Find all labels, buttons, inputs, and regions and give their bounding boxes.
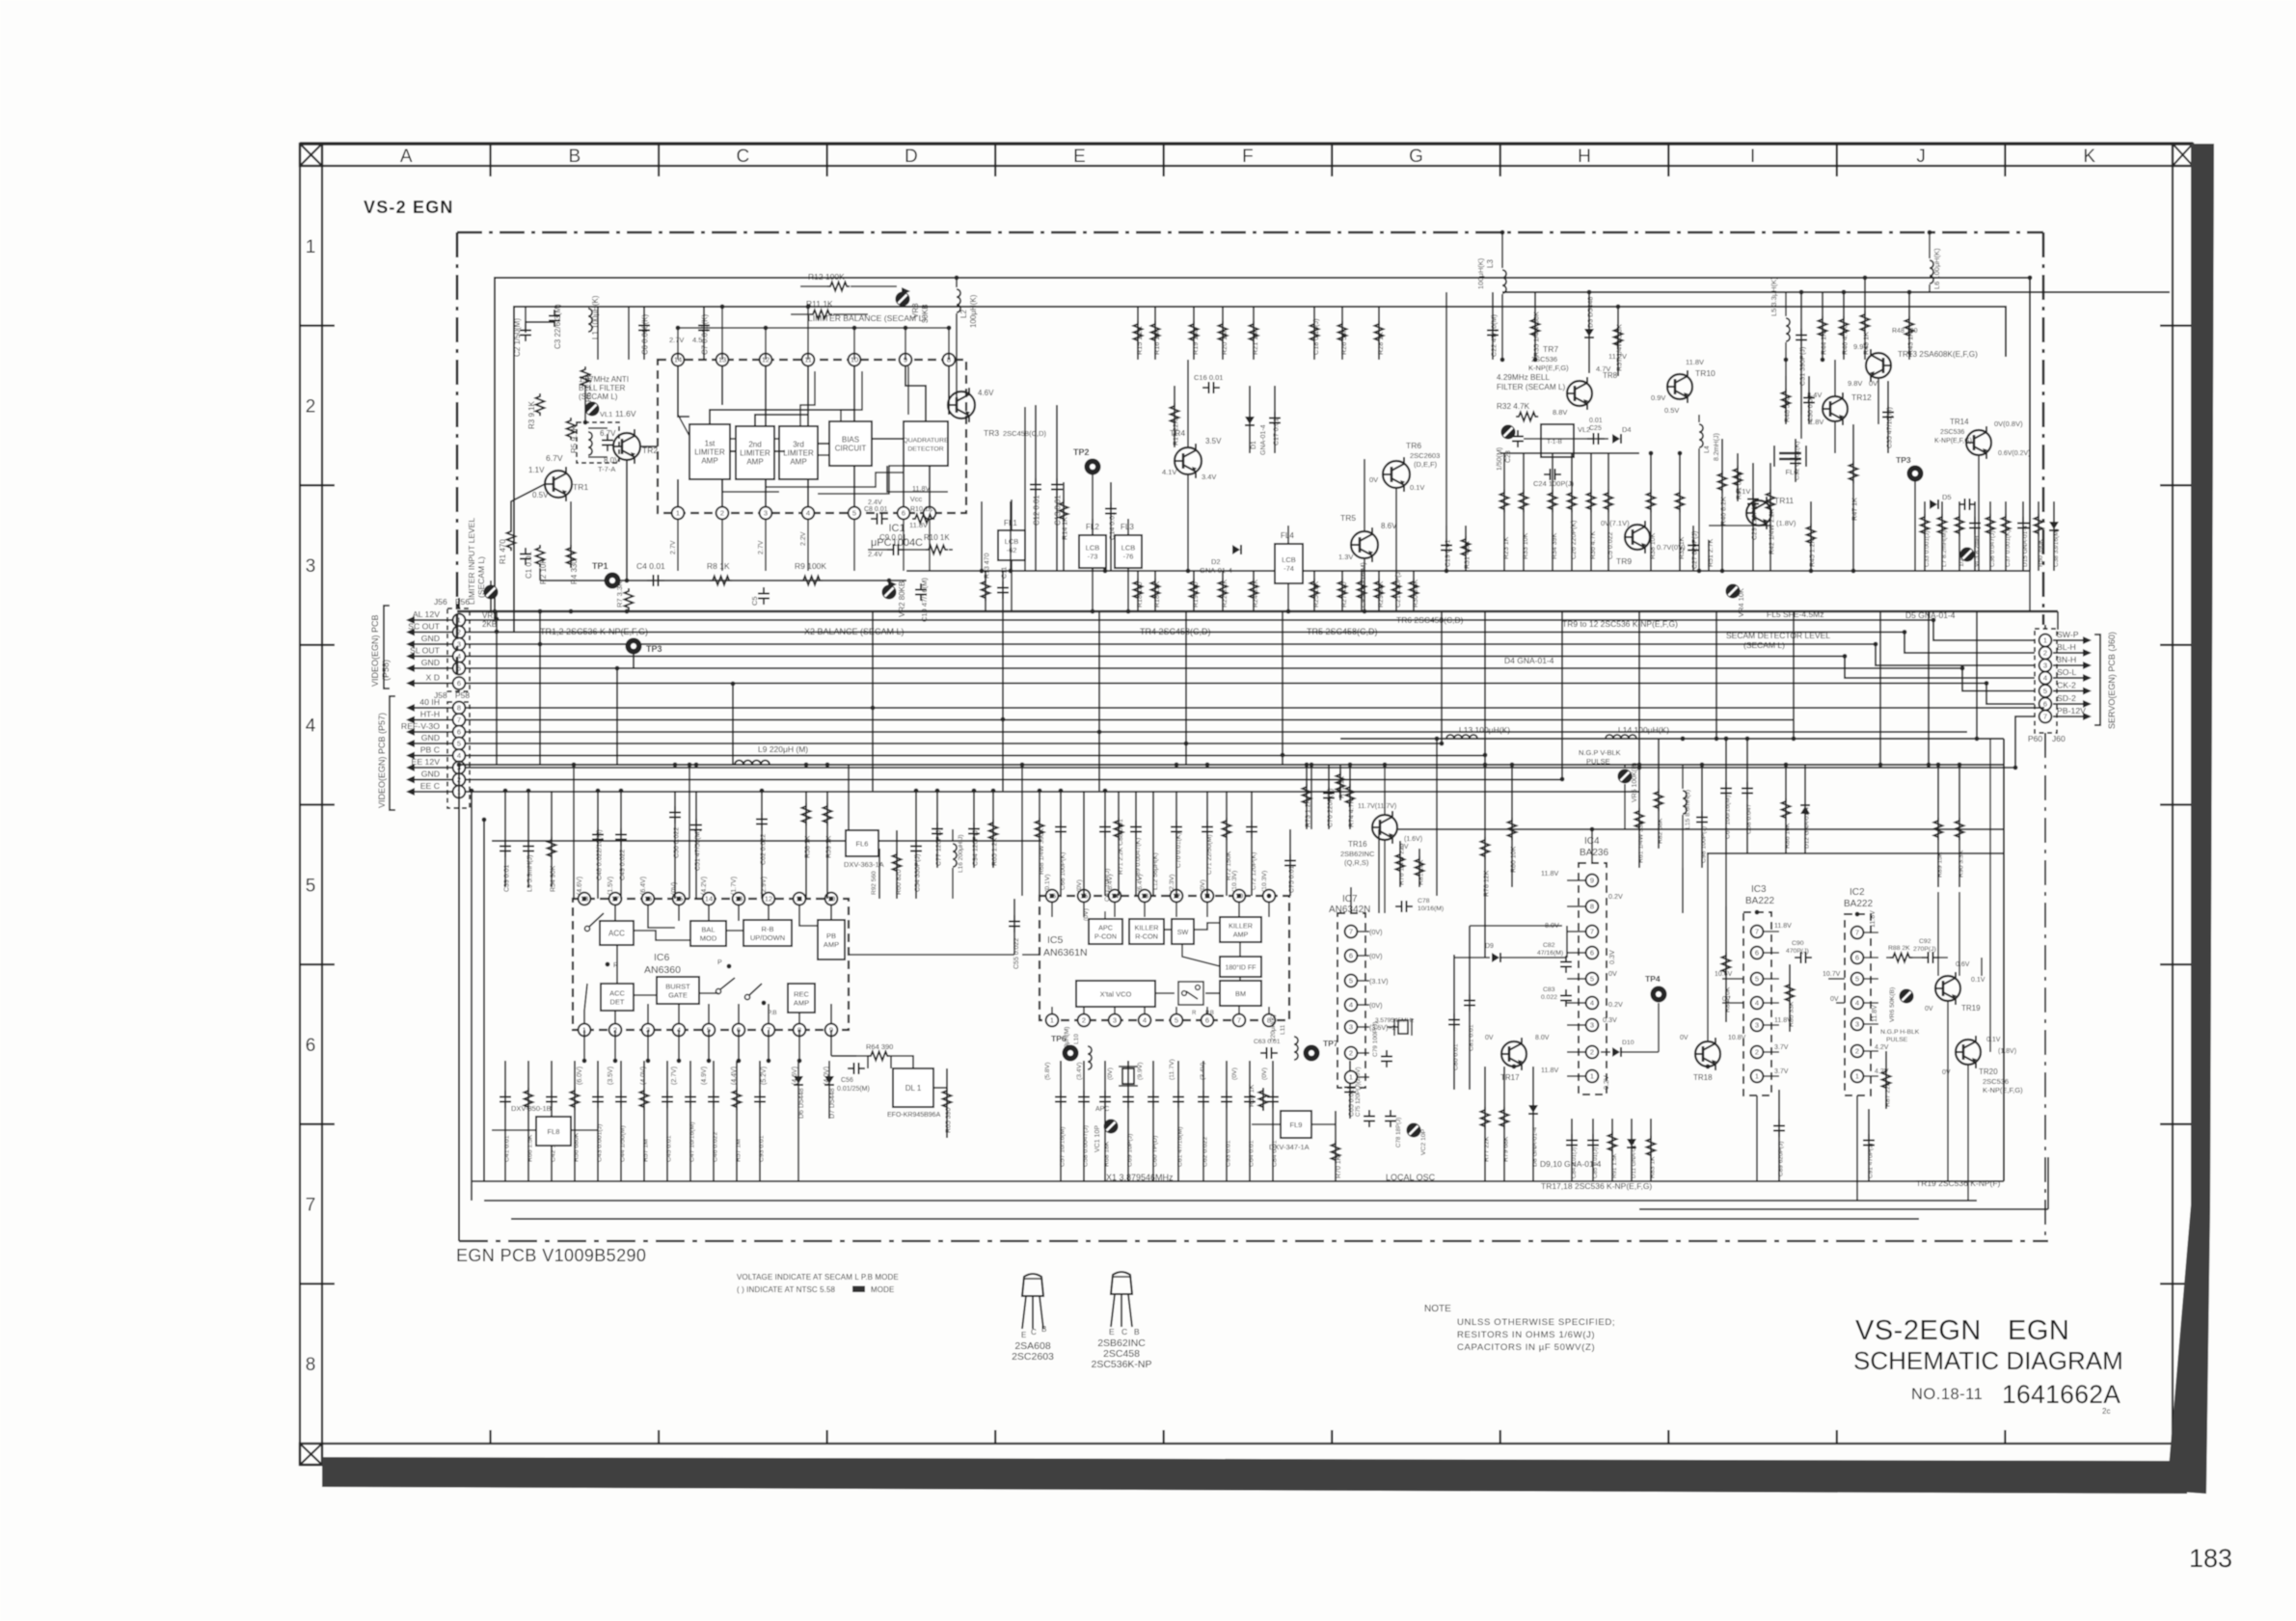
svg-text:TR10: TR10 <box>1695 368 1715 378</box>
svg-text:C72 120P(K): C72 120P(K) <box>1251 852 1257 890</box>
svg-text:R31 4.9K: R31 4.9K <box>1465 540 1472 569</box>
IC6 block REC AMP <box>788 984 815 1013</box>
svg-text:0V(7.1V): 0V(7.1V) <box>1601 519 1630 527</box>
svg-text:DXV-350-1B: DXV-350-1B <box>511 1104 552 1113</box>
resistor R87 22K <box>1885 1051 1887 1109</box>
svg-text:R38 10K: R38 10K <box>1650 532 1657 559</box>
IC5 left link wires <box>1022 954 1040 956</box>
svg-text:TR5: TR5 <box>1340 513 1356 523</box>
resistor R3 9.1K <box>536 393 545 416</box>
svg-text:7: 7 <box>1237 1016 1241 1025</box>
svg-text:TR8: TR8 <box>1603 371 1618 380</box>
resistor R83 1K <box>1650 1119 1652 1181</box>
svg-text:7: 7 <box>1590 928 1594 936</box>
svg-text:SW-P: SW-P <box>2057 630 2079 639</box>
svg-text:PULSE: PULSE <box>1586 757 1610 766</box>
svg-text:H: H <box>1578 147 1591 167</box>
resistor R49 1K <box>1864 278 1866 360</box>
svg-text:L4: L4 <box>1704 446 1711 453</box>
resistor R81 10K <box>1418 849 1420 887</box>
IC6 block PB AMP <box>818 920 845 959</box>
svg-text:BURST: BURST <box>665 982 690 990</box>
svg-text:L10: L10 <box>1073 1034 1080 1044</box>
svg-text:P60: P60 <box>2028 734 2042 743</box>
transistor TR3 <box>948 392 975 419</box>
svg-text:0.3V: 0.3V <box>1607 950 1616 964</box>
svg-text:5: 5 <box>852 509 856 518</box>
svg-text:R51 2.7K: R51 2.7K <box>1708 538 1715 567</box>
svg-text:R13 470: R13 470 <box>985 553 991 579</box>
resistor R42 1/4W 2.2K <box>1769 463 1771 571</box>
diode D2 GNA-01-4 <box>1232 545 1240 554</box>
svg-text:C: C <box>1121 1327 1127 1337</box>
svg-text:4: 4 <box>1590 999 1594 1008</box>
svg-text:5: 5 <box>306 876 316 896</box>
svg-text:C14 0.01: C14 0.01 <box>1108 512 1117 540</box>
capacitor C67 100/16(M) <box>1725 739 1727 853</box>
svg-text:R45 1.2K: R45 1.2K <box>1810 538 1817 567</box>
svg-text:6: 6 <box>1590 949 1594 958</box>
resistor R77 22K <box>1484 1067 1486 1181</box>
capacitor C17 0.01 <box>1274 386 1276 453</box>
IC U3 BA222 dashed outline <box>1743 912 1771 1095</box>
inductor L3 100uH(K) <box>1502 270 1506 293</box>
svg-text:R: R <box>1192 1011 1197 1016</box>
trimmer VC2 10P <box>1407 1123 1421 1138</box>
transistor TR5 <box>1351 531 1378 558</box>
resistor R37 1/4W 3.3K <box>1617 307 1619 376</box>
inductor L1 100uH(K) <box>588 309 592 332</box>
svg-text:0.022: 0.022 <box>1541 994 1557 1001</box>
svg-text:7: 7 <box>1349 928 1353 936</box>
border frame <box>300 142 2193 146</box>
svg-text:(4.6V): (4.6V) <box>577 877 583 895</box>
svg-text:11.8V: 11.8V <box>1541 869 1558 878</box>
capacitor C77 120P(J) <box>936 791 938 868</box>
svg-text:VL3 8.2mH: VL3 8.2mH <box>1974 535 1981 567</box>
svg-text:EE 12V: EE 12V <box>412 757 441 767</box>
svg-text:0.1V: 0.1V <box>1971 977 1985 984</box>
svg-text:11.8V: 11.8V <box>1774 923 1792 930</box>
IC5 block BM <box>1220 981 1261 1006</box>
svg-text:MOD: MOD <box>700 934 717 943</box>
inductor L13 100uH(K) <box>1446 735 1477 739</box>
capacitor C27 820P(J) <box>1692 526 1694 571</box>
svg-text:-73: -73 <box>1088 553 1098 561</box>
svg-text:4.1V: 4.1V <box>1162 468 1176 476</box>
capacitor C14 0.01 <box>1110 482 1112 571</box>
svg-text:VIDEO(EGN) PCB: VIDEO(EGN) PCB <box>370 614 380 687</box>
wire H-col cluster ties <box>1500 452 1639 454</box>
svg-text:8: 8 <box>457 704 461 713</box>
package drawing 2SB621NC/2SC458/2SC536K-NP <box>1111 1272 1132 1294</box>
scan shadow bar bottom edge <box>322 1457 2189 1494</box>
svg-text:0.1V: 0.1V <box>1986 1037 2001 1043</box>
svg-text:C83: C83 <box>1543 986 1555 993</box>
svg-text:AMP: AMP <box>746 458 763 467</box>
svg-text:C64 0.01: C64 0.01 <box>1249 1140 1256 1167</box>
svg-text:L15 8.6mH(J): L15 8.6mH(J) <box>1685 790 1691 829</box>
IC7 pins <box>1345 926 1358 938</box>
svg-text:7: 7 <box>1855 929 1859 937</box>
resistor R92 560 <box>878 849 880 899</box>
svg-text:(3.4V): (3.4V) <box>1076 1062 1083 1080</box>
svg-text:0V: 0V <box>1680 1035 1688 1041</box>
svg-text:C3 22/6.3(M): C3 22/6.3(M) <box>554 304 562 349</box>
svg-text:(2.9V): (2.9V) <box>761 877 768 895</box>
svg-text:C58 0.0047(J): C58 0.0047(J) <box>1083 1125 1090 1167</box>
IC U7 AN6342N dashed outline <box>1337 913 1365 1088</box>
IC5 bottom pins <box>1046 1014 1059 1027</box>
svg-text:C80 0.01: C80 0.01 <box>1453 1043 1460 1070</box>
svg-text:(9.9V): (9.9V) <box>1137 1062 1144 1080</box>
wire lower band mid rails <box>1398 828 2004 830</box>
svg-text:C92: C92 <box>1919 938 1931 945</box>
svg-text:(1.5V): (1.5V) <box>608 877 614 895</box>
IC5 block SW <box>1172 919 1194 944</box>
resistor R14 1K <box>1063 482 1065 571</box>
svg-text:(0V): (0V) <box>1076 879 1083 892</box>
svg-text:1.1V: 1.1V <box>528 466 545 474</box>
svg-text:GNA-01-4: GNA-01-4 <box>1200 566 1232 575</box>
capacitor C22 47/16(M) <box>1492 292 1494 360</box>
svg-text:4: 4 <box>457 751 461 760</box>
svg-text:C7 0.018(K): C7 0.018(K) <box>701 314 710 355</box>
svg-text:L9 5.9mH(J): L9 5.9mH(J) <box>527 854 534 892</box>
svg-text:C4 0.01: C4 0.01 <box>636 561 665 571</box>
resistor R84 10K <box>1725 906 1727 1022</box>
svg-text:2: 2 <box>720 509 724 518</box>
svg-text:R79 68K: R79 68K <box>1503 1136 1510 1162</box>
svg-text:R28 1K: R28 1K <box>1376 332 1385 355</box>
transistor TR19 <box>1935 976 1960 1001</box>
svg-text:D8 GNA-01-4: D8 GNA-01-4 <box>1532 1127 1539 1167</box>
inductor L2 100uH(K) <box>957 289 960 312</box>
resistor R2 10K <box>536 545 545 567</box>
svg-text:R19 180: R19 180 <box>1191 329 1200 355</box>
svg-text:R40 8.2K: R40 8.2K <box>1719 497 1728 526</box>
svg-text:47/16(M): 47/16(M) <box>1537 950 1563 957</box>
svg-text:PB: PB <box>826 932 836 940</box>
svg-text:11.8V: 11.8V <box>912 484 930 493</box>
svg-text:C48 0.022/16(M): C48 0.022/16(M) <box>597 829 604 880</box>
wire upper mid rail TP1 line <box>540 580 906 581</box>
svg-text:0.6V: 0.6V <box>1956 961 1970 968</box>
svg-text:RESITORS IN OHMS 1/6W(J): RESITORS IN OHMS 1/6W(J) <box>1457 1330 1595 1340</box>
svg-text:G: G <box>1409 147 1423 167</box>
IC5 block KILLER R-CON <box>1129 919 1164 944</box>
svg-text:R37 1/4W 3.3K: R37 1/4W 3.3K <box>1615 324 1624 371</box>
svg-text:1: 1 <box>306 237 316 257</box>
svg-text:C78: C78 <box>1418 898 1430 905</box>
wire lower band bottom dash-dot <box>459 1240 2048 1242</box>
svg-text:TR17,18 2SC536 K-NP(E,F,G): TR17,18 2SC536 K-NP(E,F,G) <box>1541 1181 1652 1191</box>
svg-text:C93 0.01: C93 0.01 <box>759 1135 766 1162</box>
svg-text:7: 7 <box>457 716 461 724</box>
svg-text:(1.8V): (1.8V) <box>1998 1048 2016 1055</box>
svg-text:C35 47/16(M): C35 47/16(M) <box>1887 407 1894 448</box>
svg-text:J60: J60 <box>2052 734 2066 743</box>
svg-text:C51 47/50(M): C51 47/50(M) <box>695 829 702 871</box>
package drawing 2SA608/2SC2603 <box>1022 1274 1043 1296</box>
svg-text:4.6V: 4.6V <box>978 389 994 397</box>
potentiometer VR4 10K <box>1726 584 1741 599</box>
svg-text:N.G.P V-BLK: N.G.P V-BLK <box>1579 748 1621 757</box>
svg-text:2: 2 <box>1855 1047 1859 1056</box>
svg-text:DXV-363-1A: DXV-363-1A <box>844 860 884 869</box>
svg-text:2SC2603: 2SC2603 <box>1410 451 1440 460</box>
resistor cluster lower F col <box>1137 571 1139 611</box>
capacitor C98 100P(J) <box>1701 765 1703 868</box>
svg-text:(SECAM L): (SECAM L) <box>1743 640 1785 650</box>
bracket P57 <box>390 696 395 810</box>
svg-text:GATE: GATE <box>668 991 688 1000</box>
IC6 top pins <box>579 893 591 905</box>
svg-text:R57 1M: R57 1M <box>736 1139 743 1162</box>
inductor L10 68uH <box>1088 1046 1092 1069</box>
svg-text:LIMITER: LIMITER <box>694 448 725 457</box>
IC5 top drops <box>1039 791 1040 896</box>
junction dots middle <box>495 617 500 622</box>
svg-text:C11: C11 <box>1002 567 1009 579</box>
IC6 block R-B UP/DOWN <box>743 920 792 946</box>
svg-text:R26 56K: R26 56K <box>1339 328 1348 355</box>
filter FL5 ceramic <box>1779 452 1801 455</box>
svg-text:R39 1K: R39 1K <box>1679 536 1686 559</box>
svg-text:P: P <box>717 959 722 966</box>
IC5 right drops <box>1306 765 1308 829</box>
svg-text:R65 1.2K: R65 1.2K <box>992 837 999 866</box>
svg-text:PB C: PB C <box>420 745 440 755</box>
inductor L16 200uH <box>953 844 957 867</box>
inductor L11 220uH <box>1294 1037 1298 1060</box>
junction dots lower <box>572 763 577 768</box>
resistor R86 10K <box>1785 765 1787 853</box>
diode D4 <box>1612 434 1620 444</box>
svg-text:C61 47/16(M): C61 47/16(M) <box>1177 1126 1184 1167</box>
svg-text:8.4V: 8.4V <box>1807 391 1822 399</box>
svg-text:3.7V: 3.7V <box>1774 1044 1789 1051</box>
svg-text:4.2V: 4.2V <box>1875 1044 1889 1051</box>
svg-text:C16 0.01: C16 0.01 <box>1194 373 1223 382</box>
svg-text:4.29MHz BELL: 4.29MHz BELL <box>1497 373 1551 382</box>
svg-text:P.B: P.B <box>768 1010 777 1016</box>
svg-text:6.7V: 6.7V <box>600 429 616 438</box>
svg-text:F: F <box>1242 147 1254 167</box>
svg-text:TR5 2SC458(C,D): TR5 2SC458(C,D) <box>1307 627 1378 636</box>
resistor R65 1.2K <box>992 791 994 868</box>
resistor R64 390 <box>868 1052 890 1061</box>
svg-text:K-NP(E,F,G): K-NP(E,F,G) <box>1934 438 1972 445</box>
svg-text:11.8V: 11.8V <box>1686 358 1704 366</box>
capacitor C68 0.047 <box>1746 739 1748 853</box>
svg-text:C25: C25 <box>1589 425 1602 432</box>
svg-text:100μH(K): 100μH(K) <box>1476 257 1485 289</box>
svg-text:6: 6 <box>457 728 461 737</box>
IC4 pins <box>1586 875 1599 887</box>
capacitor C94 120P(J) <box>973 791 975 868</box>
resistor R47 1K <box>1852 424 1854 571</box>
capacitor C4 0.01 <box>647 580 654 581</box>
wires IC1 pin drops to rails <box>677 519 679 571</box>
svg-text:ACC: ACC <box>608 930 625 938</box>
svg-text:R17 22K: R17 22K <box>1174 419 1180 446</box>
svg-text:C93 0.01: C93 0.01 <box>1226 1140 1232 1167</box>
svg-text:R83 1K: R83 1K <box>1650 1156 1657 1178</box>
svg-text:2.4V: 2.4V <box>868 550 882 558</box>
capacitor C75 0.01 <box>1289 829 1291 896</box>
svg-text:8.8V: 8.8V <box>1553 408 1567 417</box>
capacitor C13 0.01 <box>1056 405 1058 571</box>
wires connector P60 links <box>2057 611 2059 630</box>
svg-text:C18 0.15(J): C18 0.15(J) <box>1311 318 1320 355</box>
svg-text:D12 GNA-01-4: D12 GNA-01-4 <box>1804 807 1811 849</box>
IC1 block quadrature detector <box>904 421 948 466</box>
svg-text:R57 1M: R57 1M <box>643 1139 650 1162</box>
svg-text:GND: GND <box>421 733 440 743</box>
svg-text:C79 100P(J): C79 100P(J) <box>1372 1022 1379 1058</box>
inductor L5 3.3uH(K) <box>1786 318 1790 341</box>
svg-text:R-B: R-B <box>762 925 774 933</box>
svg-text:1st: 1st <box>705 439 716 447</box>
resistor R43 1K <box>1908 292 1910 360</box>
capacitor C63 0.01 <box>1260 1052 1267 1054</box>
svg-text:40 IH: 40 IH <box>419 697 440 707</box>
wire lower band top rail <box>459 764 2004 766</box>
svg-text:TR1,2 2SC536 K-NP(E,F,G): TR1,2 2SC536 K-NP(E,F,G) <box>540 627 648 636</box>
wires lower band horizontals <box>1470 925 1562 927</box>
svg-text:D10: D10 <box>1622 1040 1634 1046</box>
svg-text:D5: D5 <box>1942 493 1952 501</box>
resistor R11 1K <box>810 311 832 319</box>
IC5 block APC P-CON <box>1089 919 1122 944</box>
svg-text:C1 0.01: C1 0.01 <box>525 551 533 579</box>
capacitor C75 120P <box>1368 1110 1370 1117</box>
resistor cluster G-H mid <box>1503 453 1505 571</box>
svg-text:D2: D2 <box>1211 557 1221 566</box>
svg-text:Vcc: Vcc <box>910 495 923 503</box>
svg-text:R5 9.1K: R5 9.1K <box>570 424 579 453</box>
svg-text:X2 BALANCE (SECAM L): X2 BALANCE (SECAM L) <box>804 627 905 636</box>
diode D12 GNA-01-4 <box>1804 765 1806 853</box>
svg-text:1641662A: 1641662A <box>2002 1380 2120 1409</box>
svg-text:C89 0.0047(K): C89 0.0047(K) <box>1135 838 1142 880</box>
wire lower band right vertical <box>2003 739 2005 1181</box>
potentiometer VR1 2KB <box>484 585 499 600</box>
svg-text:(1.6V): (1.6V) <box>1404 836 1422 843</box>
svg-text:-74: -74 <box>1283 564 1294 573</box>
resistor R32 4.7K <box>1516 413 1538 421</box>
crystal X1 <box>1127 1061 1129 1068</box>
svg-text:SL OUT: SL OUT <box>410 646 441 656</box>
svg-text:REC: REC <box>794 989 809 998</box>
svg-text:R35 1/4W 68K: R35 1/4W 68K <box>1532 311 1541 357</box>
capacitor C12 0.01 <box>1035 405 1037 571</box>
svg-text:AMP: AMP <box>1233 931 1249 939</box>
svg-text:FL6: FL6 <box>856 840 869 849</box>
IC6 bottom component drops <box>504 1061 506 1181</box>
svg-text:R86 10K: R86 10K <box>1785 823 1792 849</box>
svg-text:K-NP(E,F,G): K-NP(E,F,G) <box>1983 1086 2023 1094</box>
svg-text:E: E <box>1073 147 1086 167</box>
svg-text:6: 6 <box>1205 1016 1209 1025</box>
capacitor C5 0.022 <box>763 587 765 594</box>
svg-text:AN6360: AN6360 <box>644 964 681 976</box>
svg-text:2.7V: 2.7V <box>670 540 677 554</box>
IC1 internal wires <box>730 450 736 452</box>
IC5 block KILLER AMP <box>1220 917 1261 942</box>
svg-text:R20 13K: R20 13K <box>1220 328 1229 355</box>
transistor TR9 <box>1625 525 1650 550</box>
svg-text:FL5 SFE-4.5Mz: FL5 SFE-4.5Mz <box>1767 609 1824 619</box>
svg-text:IC2: IC2 <box>1850 887 1865 898</box>
svg-text:QUADRATURE: QUADRATURE <box>903 437 949 444</box>
svg-text:UNLSS OTHERWISE SPECIFIED;: UNLSS OTHERWISE SPECIFIED; <box>1457 1317 1615 1328</box>
svg-text:L9 220μH (M): L9 220μH (M) <box>758 744 808 754</box>
wires TR16 <box>1384 841 1386 913</box>
VL1 pot <box>585 402 600 417</box>
svg-text:TR9 to 12 2SC536 K-NP(E,F,G): TR9 to 12 2SC536 K-NP(E,F,G) <box>1562 619 1678 629</box>
svg-text:3.7V: 3.7V <box>1774 1068 1789 1075</box>
svg-text:(4.2V): (4.2V) <box>701 877 708 895</box>
wire shield dash-dot top <box>457 231 2043 234</box>
svg-text:R14 1K: R14 1K <box>1061 517 1069 540</box>
transistor TR14 <box>1966 430 1991 455</box>
svg-text:HT-H: HT-H <box>420 710 440 719</box>
svg-text:2SC2603: 2SC2603 <box>1012 1351 1054 1363</box>
resistor R82 68K <box>1658 739 1660 849</box>
resistor R70 1K <box>1335 1111 1337 1181</box>
svg-text:L11: L11 <box>1280 1024 1286 1035</box>
capacitor C9 0.01 <box>887 549 894 551</box>
svg-text:(5.2V): (5.2V) <box>761 1067 768 1085</box>
svg-text:R44 1K: R44 1K <box>1820 332 1828 355</box>
svg-text:5: 5 <box>1175 1016 1178 1025</box>
svg-text:VC1 10P: VC1 10P <box>1094 1125 1101 1152</box>
svg-text:4: 4 <box>1855 999 1859 1008</box>
svg-text:C: C <box>736 147 749 167</box>
capacitor C29 150P(J) <box>1752 463 1754 571</box>
diode D3 D5448 <box>1588 292 1590 373</box>
capacitor C92 270P(J) <box>1922 957 1929 959</box>
svg-text:IC6: IC6 <box>654 952 670 963</box>
svg-text:0.2V: 0.2V <box>1608 1000 1623 1009</box>
svg-text:SCHEMATIC DIAGRAM: SCHEMATIC DIAGRAM <box>1853 1346 2123 1375</box>
capacitor C8 0.01 near IC1 <box>871 518 878 520</box>
capacitor C78 18P <box>1390 1110 1391 1117</box>
frame corner X bottom-right <box>2173 1444 2193 1465</box>
svg-text:2KB: 2KB <box>482 620 497 629</box>
wires right lower <box>1947 1002 1949 1181</box>
svg-text:L3: L3 <box>1486 259 1495 268</box>
svg-text:BL-H: BL-H <box>2057 642 2076 652</box>
svg-text:(3.1V): (3.1V) <box>1369 977 1389 986</box>
svg-text:0.1V: 0.1V <box>1736 487 1750 496</box>
svg-text:UP/DOWN: UP/DOWN <box>750 933 785 942</box>
svg-text:3: 3 <box>1113 1016 1117 1025</box>
svg-text:C24 100P(J): C24 100P(J) <box>1533 479 1575 488</box>
potentiometer VR3 30KB <box>896 292 910 307</box>
svg-text:(0V): (0V) <box>671 882 678 895</box>
crystal X2 3.58 <box>1387 1026 1398 1028</box>
svg-text:R3 9.1K: R3 9.1K <box>527 400 536 429</box>
svg-text:FL4: FL4 <box>1281 531 1294 540</box>
capacitor C65 0.01 <box>1349 1061 1351 1119</box>
svg-text:4: 4 <box>306 716 316 737</box>
svg-text:R70 1K: R70 1K <box>1336 1155 1342 1178</box>
svg-text:D9,10 GNA-01-4: D9,10 GNA-01-4 <box>1540 1159 1602 1169</box>
svg-text:BAL: BAL <box>701 925 715 933</box>
